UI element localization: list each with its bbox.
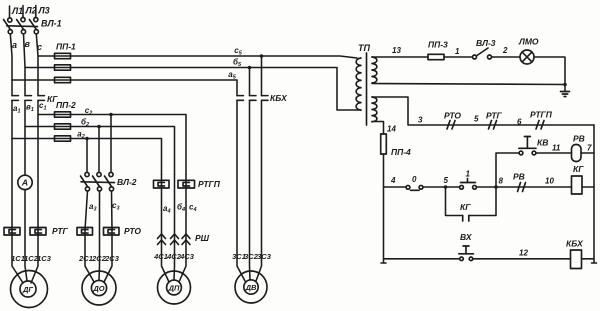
- svg-text:Л1: Л1: [11, 6, 23, 16]
- switch ВЛ-3: [473, 38, 496, 59]
- svg-text:б2: б2: [81, 118, 89, 129]
- svg-text:КГ: КГ: [573, 164, 584, 174]
- wire КБХ drop 2: [249, 68, 252, 281]
- svg-text:2С3: 2С3: [104, 254, 120, 263]
- svg-text:5: 5: [474, 115, 479, 124]
- svg-text:ВЛ-1: ВЛ-1: [41, 19, 62, 29]
- svg-text:4: 4: [390, 176, 396, 185]
- lamp ЛМО: [518, 37, 539, 65]
- fuse ПП-4: [381, 134, 387, 154]
- wire motor ДО leads: [85, 191, 112, 282]
- svg-text:б5: б5: [233, 58, 242, 69]
- svg-text:14: 14: [387, 125, 396, 134]
- contactor КБХ contacts: [237, 93, 288, 103]
- svg-text:а3: а3: [89, 202, 97, 213]
- wire phase a vertical: [10, 34, 12, 96]
- wire ВЛ-2 drop 2: [98, 127, 100, 173]
- wire right rail: [592, 125, 597, 263]
- svg-text:РТГ: РТГ: [52, 226, 69, 236]
- junction on wire b5: [248, 66, 252, 70]
- junction on wire c5: [260, 54, 264, 58]
- svg-text:РТГП: РТГП: [530, 110, 553, 120]
- svg-text:13: 13: [392, 46, 401, 55]
- fuse ПП-2 row1 wire c2: [38, 115, 186, 175]
- junction on wire b2: [97, 125, 101, 129]
- wire phase c lower: [31, 100, 38, 283]
- svg-text:0: 0: [412, 175, 417, 184]
- svg-text:ВХ: ВХ: [460, 232, 473, 242]
- svg-text:ДП: ДП: [168, 284, 180, 293]
- wire row start-stop: [384, 186, 595, 188]
- fuse ПП-3: [428, 54, 444, 59]
- thermal relay РТО heaters: [77, 226, 141, 236]
- svg-text:ВЛ-3: ВЛ-3: [476, 38, 496, 48]
- transformer ТП primary winding: [356, 58, 361, 110]
- svg-text:РТО: РТО: [124, 226, 141, 236]
- svg-text:РШ: РШ: [195, 233, 210, 243]
- svg-text:ТП: ТП: [358, 43, 370, 53]
- svg-text:РВ: РВ: [573, 134, 585, 144]
- ground: [561, 92, 570, 97]
- wire bottom row: [384, 258, 595, 260]
- fuse ПП-1 row1 wire c5: [38, 56, 357, 58]
- svg-text:ВЛ-2: ВЛ-2: [117, 177, 137, 187]
- node 4C1 4C2 4C3 labels: [153, 252, 195, 261]
- svg-text:б4: б4: [177, 203, 185, 214]
- svg-text:5: 5: [444, 176, 449, 185]
- svg-text:с1: с1: [39, 101, 47, 112]
- svg-text:ПП-2: ПП-2: [56, 100, 76, 110]
- svg-text:ПП-3: ПП-3: [428, 40, 448, 50]
- wire РТГП drop 3: [179, 175, 186, 283]
- svg-text:1С1: 1С1: [11, 254, 25, 263]
- switch ВЛ-2: [81, 172, 137, 191]
- wire lamp return: [534, 57, 565, 92]
- svg-text:с2: с2: [85, 106, 93, 117]
- svg-text:РТГ: РТГ: [486, 111, 503, 121]
- svg-text:а: а: [12, 40, 17, 50]
- svg-text:РТГП: РТГП: [198, 179, 221, 189]
- svg-text:ДВ: ДВ: [245, 283, 257, 292]
- wire ВЛ-2 drop 1: [86, 139, 88, 173]
- svg-text:а4: а4: [163, 204, 171, 215]
- svg-text:с5: с5: [234, 46, 242, 57]
- svg-text:7: 7: [587, 144, 592, 153]
- svg-text:4С3: 4С3: [179, 252, 195, 261]
- motor ДВ: [235, 271, 267, 303]
- transformer ТП core: [366, 53, 368, 125]
- wire 2: [492, 56, 521, 58]
- wire ВЛ-2 drop 3: [110, 115, 112, 173]
- wire secondary 1 return: [372, 84, 565, 85]
- motor ДГ: [11, 271, 48, 308]
- svg-text:в1: в1: [26, 103, 34, 114]
- svg-text:Л3: Л3: [38, 6, 50, 16]
- junction self-hold right: [494, 185, 498, 189]
- pushbutton КВ: [519, 137, 549, 155]
- svg-text:2С1: 2С1: [78, 254, 93, 263]
- node 3C1 3C2 3C3 labels: [232, 252, 272, 261]
- pushbutton 0 stop: [406, 175, 423, 190]
- node Л1 Л2 Л3 input stubs: [10, 6, 50, 18]
- switch ВЛ-1: [4, 18, 62, 34]
- svg-text:с4: с4: [189, 203, 197, 214]
- junction lamp return: [563, 83, 567, 87]
- svg-text:3: 3: [418, 116, 423, 125]
- wire КВ branch: [496, 153, 594, 187]
- node 2C1 2C2 2C3 labels: [78, 254, 120, 263]
- svg-text:КГ: КГ: [460, 202, 471, 212]
- fuse ПП-1 fuse 3: [55, 77, 71, 82]
- relay coil РВ: [572, 134, 585, 162]
- svg-text:3С3: 3С3: [257, 252, 272, 261]
- relay coil КГ: [572, 164, 585, 194]
- plug connector РШ arrows: [158, 233, 210, 245]
- wire phase b vertical: [24, 34, 26, 96]
- svg-text:8: 8: [499, 177, 504, 186]
- svg-text:РВ: РВ: [513, 172, 525, 182]
- wire РТГП drop 2: [173, 175, 176, 281]
- svg-text:ДГ: ДГ: [22, 285, 33, 294]
- wire phase b lower with ammeter break: [25, 100, 27, 281]
- contact КГ self-hold loop: [446, 187, 497, 221]
- svg-text:Л2: Л2: [25, 6, 37, 16]
- svg-text:2: 2: [502, 46, 508, 55]
- thermal relay РТГ heaters: [4, 226, 69, 236]
- wire 13 lamp feed: [372, 56, 473, 58]
- svg-text:с3: с3: [112, 201, 120, 212]
- wire phase c vertical: [36, 34, 38, 96]
- fuse ПП-1 fuse 1: [55, 53, 71, 58]
- motor ДП: [158, 271, 191, 304]
- transformer ТП secondary 2 winding: [372, 97, 377, 122]
- pushbutton ВХ: [459, 232, 474, 261]
- contact РТГП normally closed: [530, 110, 553, 130]
- contact РТО normally closed: [444, 111, 461, 130]
- svg-text:ДО: ДО: [92, 284, 104, 293]
- contact РТГ normally closed: [486, 111, 503, 130]
- svg-text:ПП-4: ПП-4: [391, 147, 411, 157]
- svg-text:ЛМО: ЛМО: [518, 37, 539, 47]
- svg-text:КВ: КВ: [537, 138, 548, 148]
- fuse ПП-1 row3 wire a5: [12, 79, 237, 81]
- svg-text:КБХ: КБХ: [270, 93, 288, 103]
- svg-text:1: 1: [455, 47, 460, 56]
- svg-text:6: 6: [517, 118, 522, 127]
- svg-text:а1: а1: [13, 104, 21, 115]
- svg-text:а5: а5: [228, 70, 236, 81]
- svg-text:12: 12: [519, 249, 528, 258]
- svg-text:1С3: 1С3: [37, 254, 52, 263]
- svg-text:в: в: [25, 39, 31, 49]
- wire 3 control feed: [372, 97, 594, 125]
- wire РТГП drop 1: [162, 175, 170, 283]
- ammeter A: [18, 175, 32, 189]
- svg-text:РТО: РТО: [444, 111, 461, 121]
- svg-text:КБХ: КБХ: [566, 239, 584, 249]
- node 1C1 1C2 1C3 labels: [11, 254, 52, 263]
- fuse ПП-2 fuse 3: [55, 136, 71, 141]
- svg-text:а2: а2: [77, 130, 85, 141]
- thermal relay РТГП heaters: [154, 179, 221, 189]
- wire КБХ drop 3: [256, 56, 262, 281]
- fuse ПП-2 row2 wire b2: [25, 127, 175, 175]
- wire phase a lower: [12, 100, 23, 283]
- svg-text:10: 10: [545, 177, 554, 186]
- relay coil КБХ: [566, 239, 584, 269]
- wire КБХ drop 1: [237, 80, 245, 281]
- svg-text:ПП-1: ПП-1: [56, 42, 76, 52]
- fuse ПП-1 row2 wire b5: [25, 68, 361, 111]
- wire secondary 2 to fuse ПП-4: [372, 122, 386, 264]
- svg-text:4С1: 4С1: [153, 252, 168, 261]
- svg-text:11: 11: [552, 144, 561, 153]
- motor ДО: [82, 271, 116, 305]
- fuse ПП-2 fuse 2: [55, 124, 71, 129]
- fuse ПП-2 row3 wire a2: [12, 139, 162, 175]
- pushbutton 1 start: [460, 170, 477, 190]
- svg-text:А: А: [21, 178, 28, 188]
- fuse ПП-2 fuse 1: [55, 112, 71, 117]
- svg-text:1: 1: [466, 170, 471, 179]
- junction on wire c2: [109, 113, 113, 117]
- contact РВ normally closed: [513, 172, 526, 192]
- contactor КГ main contacts: [12, 94, 58, 104]
- junction on wire a2: [85, 137, 89, 141]
- fuse ПП-1 fuse 2: [55, 65, 71, 70]
- junction self-hold left: [444, 185, 448, 189]
- transformer ТП secondary 1 winding: [372, 57, 377, 83]
